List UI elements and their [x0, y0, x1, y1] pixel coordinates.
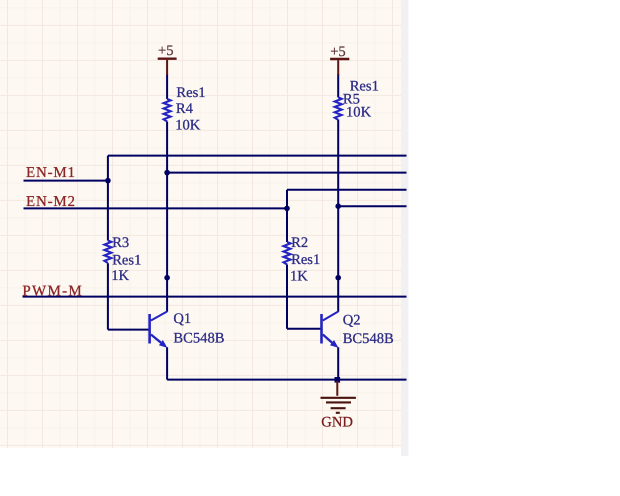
junction dot R4 column / y=172.6 net: [164, 170, 170, 176]
resistor R3 labels: [111, 235, 141, 284]
schematic sheet background: [0, 0, 401, 448]
resistor R5 labels: [343, 79, 379, 121]
wire: top horizontal net y=155.6 from R3 column to right edge: [108, 155, 407, 157]
wire: horizontal net y=206.2 from R5 column to right edge: [338, 205, 406, 207]
wire: horizontal net y=172.6 from R4 column to right edge: [167, 172, 406, 174]
wire: horizontal net y=189.8 from R2 column corner to right edge: [287, 189, 407, 191]
wire: EN-M1 net horizontal: [24, 180, 108, 182]
resistor R4 body: [164, 99, 171, 121]
svg-text:Q1: Q1: [173, 311, 191, 327]
resistor R5 body: [335, 97, 342, 119]
resistor R2 labels: [290, 235, 320, 284]
wire: R2 column vertical x=287: [287, 190, 322, 329]
svg-text:EN-M2: EN-M2: [26, 194, 76, 210]
svg-text:R3: R3: [112, 235, 129, 251]
wire: EN-M2 net horizontal: [24, 207, 288, 209]
junction dot EN-M1 / R3 column: [105, 178, 111, 184]
sheet right edge band: [401, 0, 409, 456]
ground symbol GND: [321, 381, 356, 430]
svg-text:GND: GND: [321, 414, 353, 430]
junction square at GND / emitter rail: [335, 377, 341, 383]
transistor Q1 emitter arrow: [159, 340, 168, 348]
transistor Q2 (NPN BC548B): [322, 312, 339, 344]
svg-text:BC548B: BC548B: [343, 331, 394, 347]
svg-text:R2: R2: [291, 235, 308, 251]
svg-text:BC548B: BC548B: [173, 330, 224, 346]
wire: R3 column vertical x=107.9: [108, 156, 150, 330]
junction dot on Q2 collector column: [335, 275, 341, 281]
svg-text:+5: +5: [330, 44, 346, 60]
power port +5 (left): [158, 43, 177, 75]
transistor Q2 labels: [343, 312, 394, 347]
svg-text:10K: 10K: [346, 105, 372, 121]
svg-text:1K: 1K: [111, 268, 129, 284]
junction dot EN-M2 / R2 column: [284, 206, 290, 212]
svg-text:Res1: Res1: [291, 252, 320, 268]
svg-text:+5: +5: [158, 43, 174, 59]
svg-text:PWM-M: PWM-M: [22, 283, 83, 299]
junction dot on Q1 collector column: [164, 275, 170, 281]
svg-text:10K: 10K: [175, 117, 201, 133]
power port +5 (right): [330, 44, 349, 75]
svg-text:EN-M1: EN-M1: [26, 165, 76, 181]
wire: R4/Q1 column vertical x=167.1: [166, 74, 168, 380]
transistor Q2 emitter arrow: [330, 340, 339, 348]
resistor R2 body: [284, 242, 291, 265]
wire: PWM-M net horizontal: [23, 296, 407, 298]
svg-text:R4: R4: [176, 101, 194, 117]
svg-text:1K: 1K: [290, 269, 308, 285]
wire: bottom emitter/ground rail y=379.6: [167, 379, 406, 381]
resistor R4 labels: [175, 85, 205, 134]
svg-text:Q2: Q2: [343, 312, 361, 328]
junction dot R5 column / y=206.2 net: [335, 203, 341, 209]
svg-text:Res1: Res1: [112, 252, 141, 268]
transistor Q1 (NPN BC548B): [150, 312, 168, 344]
resistor R3 body: [104, 241, 111, 264]
svg-text:Res1: Res1: [176, 85, 205, 101]
transistor Q1 labels: [173, 311, 224, 346]
wire: R5/Q2 column vertical x=338.2: [337, 74, 339, 380]
sheet grid: [0, 0, 401, 448]
